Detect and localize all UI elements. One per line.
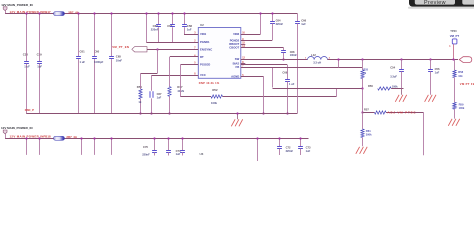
svg-text:C66: C66 xyxy=(301,18,306,22)
ground symbol C54 xyxy=(401,89,403,95)
svg-text:C70: C70 xyxy=(143,145,148,149)
svg-text:R56: R56 xyxy=(368,84,373,88)
svg-text:R58: R58 xyxy=(458,70,463,74)
capacitor C64 xyxy=(272,14,274,21)
port flag 12V MAIN_POWER_IN top xyxy=(3,7,7,11)
wire drop 3 xyxy=(81,139,83,155)
svg-text:C73: C73 xyxy=(306,145,311,149)
svg-text:R61: R61 xyxy=(366,129,371,133)
svg-text:100nF: 100nF xyxy=(290,54,298,57)
svg-text:VM_PT: VM_PT xyxy=(450,34,460,38)
wire AGND xyxy=(241,76,264,78)
svg-text:2R7_4A: 2R7_4A xyxy=(66,135,78,139)
svg-text:VIN2: VIN2 xyxy=(233,32,240,36)
op-amp U2 regulator IC box xyxy=(198,28,241,79)
capacitor C73 xyxy=(300,139,302,147)
svg-text:DNP 40.2k 1%: DNP 40.2k 1% xyxy=(199,81,220,85)
svg-text:R50: R50 xyxy=(137,85,143,89)
wire output VM_PT xyxy=(328,59,459,61)
svg-text:1 uF: 1 uF xyxy=(289,82,295,86)
port VM_PT output xyxy=(459,57,472,63)
wire PGND2 link xyxy=(241,40,272,42)
junction C66 drop at ground bus xyxy=(297,113,299,115)
svg-text:EN/SYNC: EN/SYNC xyxy=(200,47,212,51)
ferrite bead FB18 xyxy=(54,136,65,140)
svg-text:220nF: 220nF xyxy=(286,149,294,153)
svg-text:220nF: 220nF xyxy=(142,153,150,157)
svg-text:1 uF: 1 uF xyxy=(24,64,30,68)
ground symbol R61 xyxy=(356,147,360,154)
svg-text:1uF: 1uF xyxy=(435,71,440,75)
svg-text:41.2k: 41.2k xyxy=(177,89,184,93)
capacitor C65 xyxy=(111,14,113,57)
svg-text:12V MAIN_POWER_IN: 12V MAIN_POWER_IN xyxy=(1,126,33,130)
svg-text:ADJ VM PTEC: ADJ VM PTEC xyxy=(388,110,417,114)
ground symbol main xyxy=(237,113,239,119)
svg-text:C54: C54 xyxy=(390,66,395,70)
node FB divider xyxy=(361,87,363,89)
svg-text:3.3uF: 3.3uF xyxy=(390,74,397,78)
wire drop 4 xyxy=(94,139,96,155)
wire VIN1 link xyxy=(184,34,198,36)
resistor R61 xyxy=(362,112,364,128)
svg-text:10k: 10k xyxy=(458,74,463,78)
wire bus drop to PGND1 row xyxy=(146,14,148,42)
svg-text:10nF: 10nF xyxy=(116,58,123,62)
wire EN/SYNC xyxy=(147,49,198,51)
svg-text:100k: 100k xyxy=(392,84,398,88)
svg-text:1000pF: 1000pF xyxy=(94,60,104,64)
svg-text:1k: 1k xyxy=(138,100,141,104)
svg-text:VIN1: VIN1 xyxy=(200,32,207,36)
capacitor C69 xyxy=(287,65,289,80)
node ADJ xyxy=(361,111,363,113)
wire flag to bus xyxy=(5,11,7,14)
svg-text:1uF: 1uF xyxy=(157,96,162,100)
svg-text:1uF: 1uF xyxy=(301,22,306,26)
wire VIN2 link xyxy=(241,34,261,36)
capacitor C71 xyxy=(168,139,170,150)
main bus wire (bottom) xyxy=(5,138,308,140)
svg-text:VCC: VCC xyxy=(200,73,206,77)
resistor R59 xyxy=(453,102,456,109)
svg-text:1uF: 1uF xyxy=(176,152,181,156)
main 12V bus wire (top) xyxy=(5,13,297,15)
wire FB to divider node xyxy=(272,68,274,88)
svg-text:R52: R52 xyxy=(212,88,218,92)
svg-text:100k: 100k xyxy=(211,101,217,105)
svg-text:BIAS: BIAS xyxy=(233,62,240,66)
svg-text:R57: R57 xyxy=(364,107,369,111)
svg-text:PGND2: PGND2 xyxy=(230,39,240,43)
toolbar button 1 xyxy=(415,0,455,5)
svg-text:220nF: 220nF xyxy=(151,28,159,32)
svg-text:AGND: AGND xyxy=(231,74,239,78)
ground symbol R59 xyxy=(448,119,452,126)
svg-text:RBOOT: RBOOT xyxy=(229,42,239,46)
wire drop 6 xyxy=(257,139,259,161)
capacitor C67 VCC bypass xyxy=(152,75,199,77)
wire SW to inductor xyxy=(241,59,308,61)
svg-text:C38: C38 xyxy=(23,53,29,57)
svg-text:C69: C69 xyxy=(282,71,287,75)
resistor R47 RT set xyxy=(169,57,171,87)
svg-text:R59: R59 xyxy=(459,102,464,106)
svg-text:C65: C65 xyxy=(116,55,122,59)
ground bus xyxy=(26,113,297,115)
ferrite bead FB17 xyxy=(54,12,65,16)
wire drop 1 xyxy=(26,139,28,155)
capacitor C54 xyxy=(400,58,402,60)
wire EN junction down xyxy=(157,49,159,73)
svg-text:C61: C61 xyxy=(80,49,86,53)
wire PGOOD drop xyxy=(180,64,182,97)
resistor R58 xyxy=(454,60,456,71)
wire FB xyxy=(241,67,362,69)
svg-text:DNC_P: DNC_P xyxy=(25,108,34,112)
svg-text:PGND1: PGND1 xyxy=(200,40,210,44)
port flag bottom xyxy=(3,130,7,134)
svg-text:Preview: Preview xyxy=(424,0,446,6)
svg-text:C67: C67 xyxy=(157,92,162,96)
capacitor C58 xyxy=(184,14,186,25)
svg-text:C58: C58 xyxy=(187,24,193,28)
wire node down xyxy=(362,89,364,113)
wire PGND1 row xyxy=(146,42,198,44)
divider chain R55 xyxy=(361,58,363,60)
svg-text:TP30: TP30 xyxy=(450,29,457,33)
svg-text:VM_PT_EN: VM_PT_EN xyxy=(112,45,129,49)
wire ADJ down right xyxy=(423,112,425,155)
wire drop 2 xyxy=(39,139,41,155)
resistor R57 xyxy=(362,112,375,114)
toolbar dark bar top right xyxy=(409,0,474,7)
svg-text:3.3 uH: 3.3 uH xyxy=(313,60,321,64)
svg-text:1uF: 1uF xyxy=(187,28,192,32)
wire flag to bus bottom xyxy=(5,134,7,139)
svg-text:CBOOT: CBOOT xyxy=(229,46,239,50)
svg-text:390k: 390k xyxy=(366,133,372,137)
svg-text:1uF: 1uF xyxy=(37,64,42,68)
ground symbol C56 xyxy=(425,95,429,102)
capacitor C66 xyxy=(297,14,299,21)
svg-text:U3: U3 xyxy=(200,152,204,156)
svg-text:VM PT FB3: VM PT FB3 xyxy=(460,82,474,86)
capacitor C72 xyxy=(279,139,281,147)
svg-text:220nF: 220nF xyxy=(276,22,284,26)
svg-text:100k: 100k xyxy=(459,106,465,110)
capacitor C68 bootstrap xyxy=(283,48,285,51)
svg-text:C72: C72 xyxy=(286,145,291,149)
svg-text:1 uF: 1 uF xyxy=(80,60,86,64)
junction EN wire xyxy=(156,48,158,50)
wire CBOOT xyxy=(241,47,284,49)
svg-text:1uF: 1uF xyxy=(306,149,311,153)
svg-text:FB: FB xyxy=(236,65,240,69)
svg-text:C64: C64 xyxy=(276,18,281,22)
svg-text:U2: U2 xyxy=(200,23,204,27)
wire RT xyxy=(170,56,199,58)
toolbar button 2 xyxy=(462,0,474,5)
svg-text:C56: C56 xyxy=(435,67,440,71)
wire BIAS xyxy=(241,64,287,66)
wire PGOOD xyxy=(181,64,199,66)
svg-text:12V MAIN_POWER_IN: 12V MAIN_POWER_IN xyxy=(1,3,33,7)
wire drop 5 xyxy=(111,139,113,155)
svg-text:SW: SW xyxy=(235,57,240,61)
svg-text:RT: RT xyxy=(200,55,204,59)
svg-text:PGOOD: PGOOD xyxy=(200,62,210,66)
resistor R52 xyxy=(181,96,211,98)
wire to R50 xyxy=(141,73,158,75)
junction CBOOT-SW xyxy=(282,58,284,60)
capacitor C56 xyxy=(429,58,431,60)
resistor R56 xyxy=(378,87,392,90)
